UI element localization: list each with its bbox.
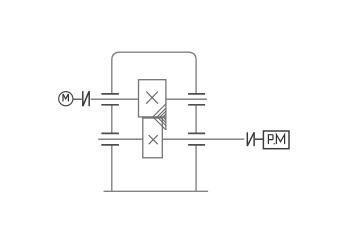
bearing right lower (bars): [188, 133, 205, 145]
housing top cover (rounded bridge): [112, 52, 196, 94]
wire: motor to coupling: [73, 98, 82, 100]
gear Z1 on input shaft (rect with X): [139, 80, 166, 117]
gear Z2 on output shaft (rect with X): [143, 118, 163, 158]
base line: [104, 190, 209, 192]
label P.M : letter M: [276, 135, 284, 145]
wire: coupling to machine box: [255, 138, 264, 140]
housing leg right: [195, 145, 197, 191]
motor M (circle): [59, 92, 73, 106]
bearing left upper (bars): [101, 94, 119, 105]
coupling 1 (elastic, motor side): [83, 91, 89, 106]
wire: output shaft II (horizontal, lower): [98, 138, 244, 140]
coupling 2 (output side): [247, 132, 254, 146]
driven machine box P.M: [263, 131, 289, 149]
label P.M : letter P: [268, 135, 273, 144]
housing wall left (between bearings): [111, 105, 113, 134]
cone mesh symbol (hatched triangles) between gears: [153, 104, 166, 130]
label P.M : dot: [274, 143, 275, 144]
housing leg left: [111, 145, 113, 191]
wire: input shaft I (horizontal, upper): [91, 98, 208, 100]
label M: [63, 94, 68, 101]
bearing right upper (bars): [188, 94, 205, 105]
bearing left lower (bars): [101, 133, 119, 145]
housing wall right (between bearings): [195, 105, 197, 134]
